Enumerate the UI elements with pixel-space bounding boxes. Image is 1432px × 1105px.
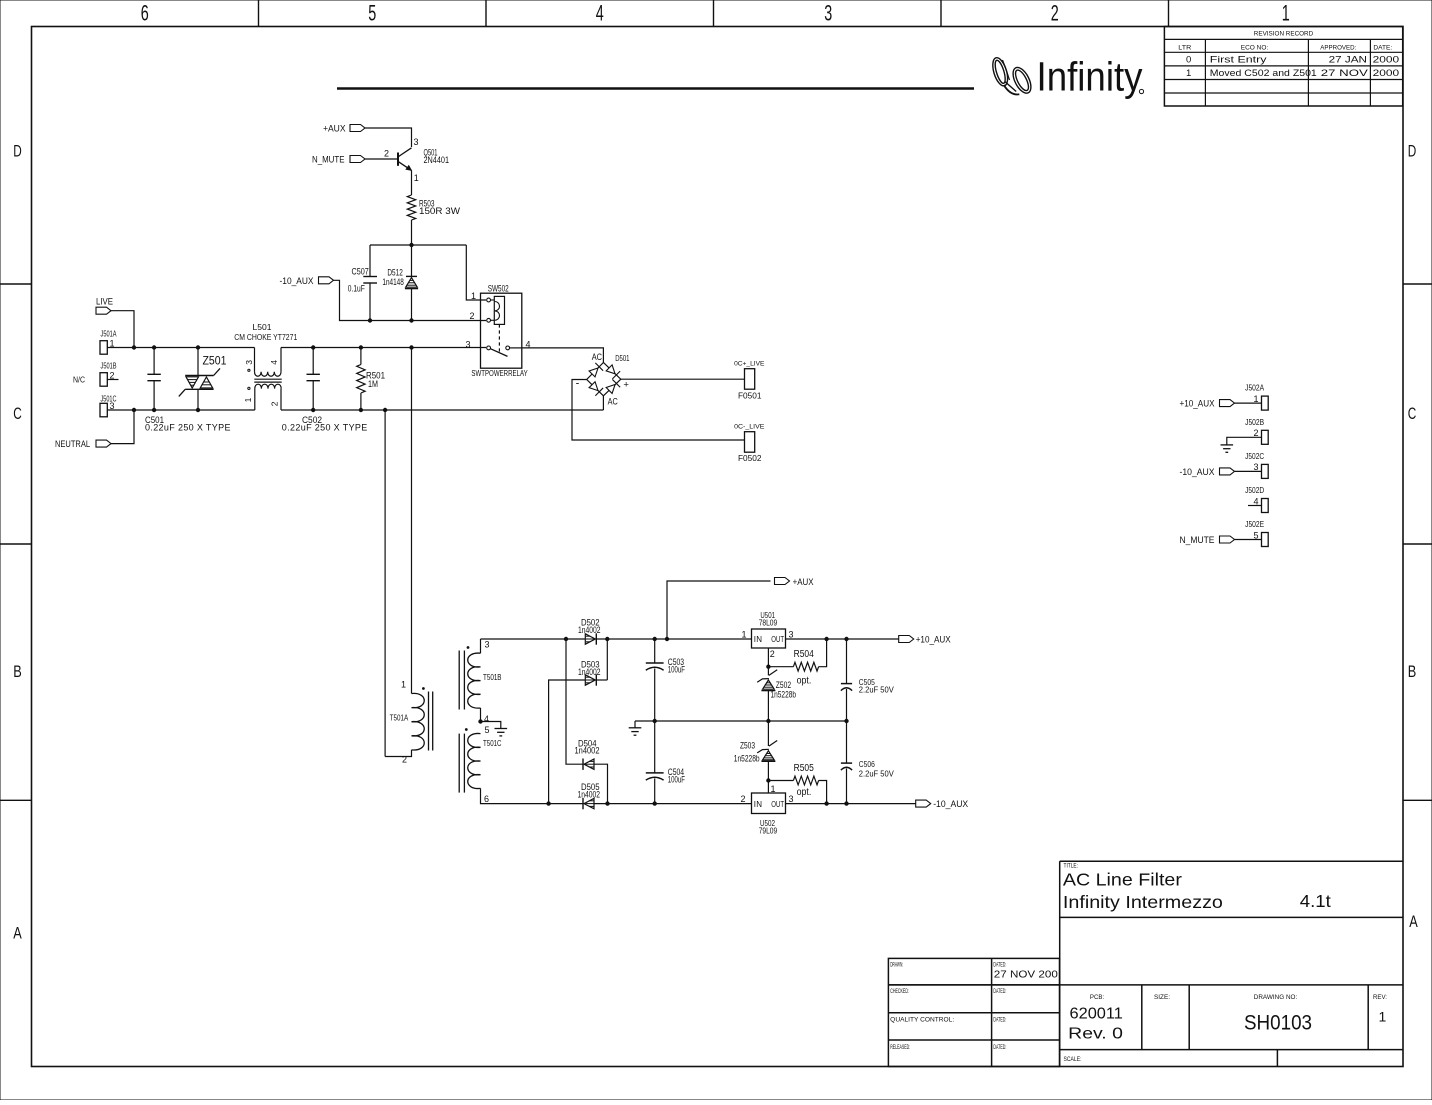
svg-text:RELEASED:: RELEASED: <box>890 1044 910 1051</box>
svg-text:0.22uF 250 X TYPE: 0.22uF 250 X TYPE <box>145 423 231 433</box>
svg-text:1: 1 <box>414 173 419 183</box>
svg-text:REVISION RECORD: REVISION RECORD <box>1254 30 1314 37</box>
capacitor C503 100uF <box>646 637 686 722</box>
svg-text:2.2uF 50V: 2.2uF 50V <box>859 685 894 695</box>
svg-text:D: D <box>1408 142 1417 161</box>
svg-text:3: 3 <box>789 629 794 639</box>
svg-text:NEUTRAL: NEUTRAL <box>55 439 90 449</box>
ground (transformer center tap) <box>495 728 508 730</box>
fuse F0501 <box>734 360 765 400</box>
wire pin6 rail through D505 <box>549 803 583 805</box>
svg-text:5: 5 <box>485 725 490 735</box>
svg-text:Z501: Z501 <box>203 354 227 368</box>
svg-text:3: 3 <box>824 0 832 25</box>
svg-text:Z503: Z503 <box>740 740 755 750</box>
wire U502 pin1 up <box>767 781 769 794</box>
relay SW502 SWTPOWERRELAY <box>465 284 530 378</box>
svg-text:2000: 2000 <box>1373 68 1400 79</box>
svg-text:1n4002: 1n4002 <box>578 667 601 677</box>
wire D504 branch down <box>566 639 583 764</box>
svg-text:2000: 2000 <box>1373 55 1400 66</box>
connector J502A pin 1 <box>1180 384 1269 411</box>
svg-text:78L09: 78L09 <box>759 618 778 628</box>
svg-text:J502A: J502A <box>1245 384 1265 393</box>
resistor R503 150R 3W <box>407 195 415 220</box>
svg-text:-10_AUX: -10_AUX <box>1180 467 1215 477</box>
svg-text:1: 1 <box>401 679 406 689</box>
svg-text:J502E: J502E <box>1245 520 1264 529</box>
svg-text:CM CHOKE YT7271: CM CHOKE YT7271 <box>234 333 297 342</box>
wire Q501 emitter to R503 <box>411 170 413 195</box>
svg-text:R505: R505 <box>794 763 815 774</box>
wire bridge - to fuse F0502 <box>572 380 745 441</box>
capacitor C504 100uF <box>646 721 686 804</box>
wire -10_AUX to relay pin2 <box>334 280 487 320</box>
svg-text:SW502: SW502 <box>488 284 509 294</box>
svg-text:3: 3 <box>485 640 490 650</box>
svg-text:SWTPOWERRELAY: SWTPOWERRELAY <box>471 369 528 378</box>
svg-text:Moved C502 and Z501: Moved C502 and Z501 <box>1210 68 1317 79</box>
svg-text:0C+_LIVE: 0C+_LIVE <box>734 360 765 367</box>
wire switched live down to T501A pin1 <box>411 348 413 694</box>
svg-text:5: 5 <box>368 0 376 25</box>
wire coil+ node top bus <box>370 244 466 246</box>
svg-text:100uF: 100uF <box>668 664 686 674</box>
svg-text:opt.: opt. <box>797 787 812 798</box>
wire U501 pin2 down <box>767 648 769 667</box>
svg-text:1n4002: 1n4002 <box>578 789 601 799</box>
resistor R505 opt. <box>768 763 826 804</box>
svg-text:1: 1 <box>110 338 115 348</box>
svg-text:2: 2 <box>270 401 280 406</box>
svg-text:3: 3 <box>789 794 794 804</box>
svg-text:4: 4 <box>269 360 279 365</box>
svg-text:Rev. 0: Rev. 0 <box>1068 1026 1123 1043</box>
svg-text:D: D <box>13 142 22 161</box>
svg-text:F0502: F0502 <box>738 453 762 463</box>
transformer T501C secondary <box>459 725 548 804</box>
transformer T501A primary <box>385 679 433 764</box>
wire neutral rail left segment <box>134 409 255 411</box>
svg-text:T501A: T501A <box>390 714 409 723</box>
varistor Z501 <box>179 346 227 412</box>
svg-text:1: 1 <box>243 397 253 402</box>
svg-text:4: 4 <box>1253 496 1258 506</box>
wire T501B pin3 to + rail <box>481 638 586 640</box>
resistor R504 opt. <box>768 639 826 687</box>
capacitor C507 0.1uF <box>348 267 377 294</box>
svg-text:5: 5 <box>1253 530 1258 540</box>
svg-text:A: A <box>13 924 22 943</box>
connector J502B pin 2 <box>1227 418 1268 445</box>
svg-text:3: 3 <box>110 401 115 411</box>
node -10_AUX flag (relay coil) <box>319 277 334 284</box>
svg-text:C: C <box>13 404 22 423</box>
title block <box>888 861 1403 1066</box>
svg-text:DRAWING NO:: DRAWING NO: <box>1254 994 1298 1001</box>
svg-text:T501B: T501B <box>483 673 502 682</box>
node N_MUTE input flag <box>350 156 365 163</box>
svg-text:ECO NO:: ECO NO: <box>1241 44 1269 51</box>
svg-text:2: 2 <box>740 794 745 804</box>
wire R503 to relay coil node <box>411 220 413 245</box>
svg-text:DATED:: DATED: <box>993 1044 1006 1051</box>
svg-text:4.1t: 4.1t <box>1300 891 1331 911</box>
diode D503 1n4002 <box>578 659 601 685</box>
wire neutral rail to bridge <box>313 409 603 411</box>
svg-text:+: + <box>623 380 629 391</box>
transistor Q501 2N4401 <box>398 137 449 183</box>
svg-text:1: 1 <box>1282 0 1290 25</box>
svg-text:D512: D512 <box>387 268 402 278</box>
svg-text:First Entry: First Entry <box>1210 55 1267 66</box>
svg-text:0.1uF: 0.1uF <box>348 284 365 294</box>
revision record table <box>1164 27 1402 107</box>
svg-text:+AUX: +AUX <box>793 577 814 587</box>
svg-text:2.2uF 50V: 2.2uF 50V <box>859 768 894 778</box>
svg-text:1n4002: 1n4002 <box>575 746 600 756</box>
connector J502E pin 5 <box>1180 520 1269 547</box>
inductor L501 CM CHOKE YT7271 <box>234 323 313 410</box>
connector J502D pin 4 <box>1245 486 1268 513</box>
svg-text:1: 1 <box>771 784 776 794</box>
wire bridge AC bottom to neutral rail <box>602 396 604 410</box>
svg-text:N/C: N/C <box>73 376 85 385</box>
svg-text:27 NOV 200: 27 NOV 200 <box>994 969 1058 980</box>
svg-text:SH0103: SH0103 <box>1244 1012 1312 1035</box>
svg-text:N_MUTE: N_MUTE <box>1180 535 1215 545</box>
node NEUTRAL input flag <box>96 440 111 447</box>
svg-text:620011: 620011 <box>1070 1006 1123 1023</box>
svg-text:3: 3 <box>244 360 254 365</box>
zener Z502 1n5228b <box>757 667 796 723</box>
wire D502 cathode to raw+ <box>596 638 654 640</box>
svg-text:N_MUTE: N_MUTE <box>312 155 345 165</box>
wire D512 to coil- bus <box>411 289 413 321</box>
wire +AUX riser <box>667 581 771 639</box>
svg-text:4: 4 <box>596 0 604 25</box>
svg-text:J502C: J502C <box>1245 452 1264 461</box>
svg-text:27 JAN: 27 JAN <box>1329 55 1368 66</box>
svg-text:PCB:: PCB: <box>1090 994 1104 1001</box>
svg-text:1: 1 <box>1186 68 1191 79</box>
connector J502C pin 3 <box>1180 452 1269 479</box>
regulator U502 79L09 <box>740 784 793 836</box>
svg-text:Infinity: Infinity <box>1037 54 1144 100</box>
svg-text:B: B <box>1408 662 1417 681</box>
svg-text:DATED:: DATED: <box>993 962 1006 969</box>
svg-text:J502B: J502B <box>1245 418 1264 427</box>
svg-text:2: 2 <box>402 754 407 764</box>
wire to C507 <box>369 245 371 277</box>
svg-text:1n5228b: 1n5228b <box>734 753 760 763</box>
svg-text:2: 2 <box>470 311 475 321</box>
svg-text:DATED:: DATED: <box>993 988 1006 995</box>
svg-text:1n4002: 1n4002 <box>578 625 601 635</box>
svg-text:APPROVED:: APPROVED: <box>1320 44 1356 51</box>
svg-text:C507: C507 <box>352 267 369 277</box>
svg-text:J502D: J502D <box>1245 486 1264 495</box>
capacitor C505 2.2uF 50V <box>841 639 894 721</box>
svg-text:1: 1 <box>1379 1009 1387 1025</box>
svg-text:QUALITY CONTROL:: QUALITY CONTROL: <box>890 1017 954 1024</box>
svg-text:79L09: 79L09 <box>759 826 778 836</box>
svg-text:2: 2 <box>770 649 775 659</box>
svg-text:1n5228b: 1n5228b <box>771 689 797 699</box>
svg-text:B: B <box>13 662 22 681</box>
regulator U501 78L09 <box>741 610 793 659</box>
wire D503 cathode up <box>596 679 607 681</box>
svg-text:LIVE: LIVE <box>96 297 113 307</box>
svg-text:2: 2 <box>1253 428 1258 438</box>
diode D505 1n4002 <box>578 782 601 809</box>
svg-text:+10_AUX: +10_AUX <box>1180 399 1215 409</box>
wire NEUTRAL up to neutral rail <box>111 410 134 444</box>
wire U502 out rail <box>786 803 916 805</box>
wire neutral down to T501A pin2 <box>383 408 386 411</box>
svg-text:IN: IN <box>754 800 762 809</box>
wire +AUX to Q501 collector <box>365 128 412 147</box>
svg-text:LTR: LTR <box>1178 44 1192 51</box>
svg-text:1: 1 <box>741 629 746 639</box>
svg-text:+10_AUX: +10_AUX <box>916 635 951 645</box>
wire D504 anode to raw- <box>594 764 608 803</box>
svg-text:opt.: opt. <box>797 676 812 687</box>
svg-text:2: 2 <box>1051 0 1059 25</box>
wire raw- rail <box>594 803 752 805</box>
node +AUX output flag <box>775 578 790 585</box>
svg-text:REV:: REV: <box>1373 994 1387 1001</box>
svg-text:100uF: 100uF <box>668 774 686 784</box>
svg-text:3: 3 <box>465 340 470 350</box>
svg-text:Infinity Intermezzo: Infinity Intermezzo <box>1063 892 1223 912</box>
diode D512 1n4148 <box>382 268 418 289</box>
header underline <box>337 87 974 90</box>
node +AUX input flag <box>350 125 365 132</box>
svg-text:1n4148: 1n4148 <box>382 277 403 287</box>
svg-text:-10_AUX: -10_AUX <box>280 276 314 286</box>
svg-text:0: 0 <box>1186 54 1191 65</box>
wire live rail left segment <box>134 347 255 349</box>
svg-text:0C-_LIVE: 0C-_LIVE <box>734 423 765 430</box>
wire N_MUTE to Q501 base <box>365 158 398 160</box>
svg-text:T501C: T501C <box>483 739 502 748</box>
ground (J502B) <box>1221 444 1234 446</box>
fuse F0502 <box>734 423 765 463</box>
svg-text:C506: C506 <box>859 759 875 769</box>
wire ground rail <box>635 720 847 722</box>
svg-text:F0501: F0501 <box>738 390 762 400</box>
svg-text:+AUX: +AUX <box>323 124 346 134</box>
capacitor C506 2.2uF 50V <box>841 721 894 804</box>
svg-text:27 NOV: 27 NOV <box>1321 68 1369 79</box>
svg-text:2N4401: 2N4401 <box>424 155 450 165</box>
wire raw+ rail to U501 <box>655 638 752 640</box>
svg-text:SIZE:: SIZE: <box>1154 994 1170 1001</box>
svg-text:AC: AC <box>592 352 603 362</box>
svg-text:1: 1 <box>471 291 476 301</box>
wire LIVE down to live rail <box>111 311 134 348</box>
svg-text:2: 2 <box>110 370 115 380</box>
svg-text:DATE:: DATE: <box>1373 44 1392 51</box>
wire D503 branch vertical <box>606 639 608 680</box>
wire D512 top <box>411 245 413 276</box>
svg-text:3: 3 <box>1253 462 1258 472</box>
svg-text:4: 4 <box>484 714 489 724</box>
wire C507 to coil- bus <box>369 283 371 321</box>
svg-text:C: C <box>1408 404 1417 423</box>
svg-text:1: 1 <box>1253 394 1258 404</box>
svg-text:L501: L501 <box>253 323 273 332</box>
svg-text:DATED:: DATED: <box>993 1017 1006 1024</box>
wire coil+ to relay pin1 <box>466 245 486 300</box>
svg-text:0.22uF 250 X TYPE: 0.22uF 250 X TYPE <box>282 423 368 433</box>
ground (regulator common) <box>634 721 636 728</box>
svg-text:-10_AUX: -10_AUX <box>933 799 968 809</box>
svg-text:D501: D501 <box>615 354 630 363</box>
resistor R501 1M <box>357 346 385 412</box>
svg-text:TITLE:: TITLE: <box>1064 863 1079 870</box>
wire pin6 branch up to D503 <box>549 680 586 804</box>
wire relay pin4 to bridge AC top <box>522 348 604 363</box>
svg-text:2: 2 <box>384 149 389 159</box>
svg-text:IN: IN <box>754 635 762 644</box>
wire bridge + to fuse F0501 <box>621 378 745 380</box>
wire U501 out <box>786 638 899 640</box>
node LIVE input flag <box>96 307 111 314</box>
svg-text:AC: AC <box>608 396 619 406</box>
wire live rail right segment <box>313 347 486 349</box>
svg-text:A: A <box>1409 912 1418 931</box>
svg-text:DRAWN:: DRAWN: <box>890 962 903 969</box>
svg-text:SCALE:: SCALE: <box>1064 1056 1082 1063</box>
svg-text:CHECKED:: CHECKED: <box>890 988 909 995</box>
svg-text:AC Line Filter: AC Line Filter <box>1063 870 1182 890</box>
node +10_AUX output flag <box>899 636 914 643</box>
diode D502 1n4002 <box>578 617 601 644</box>
svg-text:OUT: OUT <box>771 800 784 809</box>
capacitor C502 0.22uF 250 X TYPE <box>282 346 368 433</box>
svg-text:OUT: OUT <box>771 635 784 644</box>
bridge rectifier D501 <box>576 352 630 406</box>
diode D504 1n4002 <box>575 738 600 770</box>
capacitor C501 0.22uF 250 X TYPE <box>145 346 231 433</box>
svg-text:R504: R504 <box>794 649 815 660</box>
svg-text:6: 6 <box>141 0 149 25</box>
transformer T501B secondary <box>459 639 501 724</box>
svg-text:1M: 1M <box>368 379 378 389</box>
zener Z503 1n5228b <box>734 721 777 782</box>
node -10_AUX output flag <box>916 800 931 807</box>
svg-text:6: 6 <box>484 794 489 804</box>
Infinity logo <box>990 54 1144 100</box>
svg-text:3: 3 <box>414 137 419 147</box>
svg-text:150R 3W: 150R 3W <box>419 206 461 216</box>
wire center tap to ground <box>481 722 501 729</box>
